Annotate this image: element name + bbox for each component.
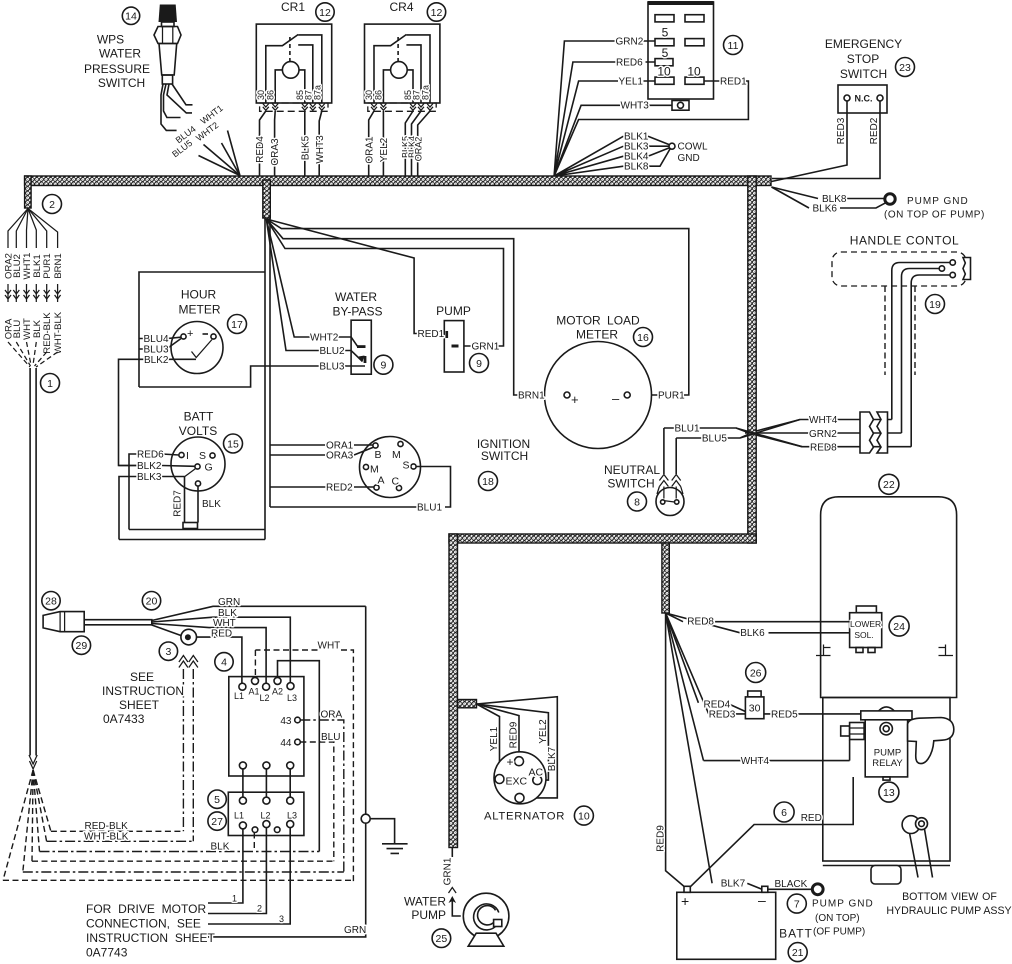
svg-text:BLK3: BLK3 bbox=[137, 472, 162, 483]
svg-text:BLU3: BLU3 bbox=[319, 362, 344, 373]
svg-text:BOTTOM VIEW OF: BOTTOM VIEW OF bbox=[902, 891, 997, 903]
svg-text:13: 13 bbox=[883, 787, 895, 799]
svg-text:N.C.: N.C. bbox=[855, 94, 873, 104]
svg-text:AC: AC bbox=[529, 767, 544, 779]
svg-text:28: 28 bbox=[45, 596, 57, 608]
svg-text:(OF PUMP): (OF PUMP) bbox=[813, 926, 865, 937]
svg-text:15: 15 bbox=[227, 438, 239, 450]
svg-text:HANDLE CONTOL: HANDLE CONTOL bbox=[850, 234, 960, 248]
svg-text:4: 4 bbox=[221, 657, 227, 669]
svg-text:A: A bbox=[378, 475, 385, 487]
svg-text:14: 14 bbox=[125, 11, 137, 23]
svg-text:10: 10 bbox=[657, 65, 671, 79]
svg-text:PUMP: PUMP bbox=[411, 908, 446, 922]
svg-text:BLK: BLK bbox=[32, 319, 43, 338]
svg-text:22: 22 bbox=[883, 479, 895, 491]
svg-text:ALTERNATOR: ALTERNATOR bbox=[484, 811, 565, 823]
svg-text:WHT4: WHT4 bbox=[741, 756, 770, 767]
svg-text:S: S bbox=[199, 450, 206, 462]
svg-text:CR4: CR4 bbox=[389, 0, 413, 14]
svg-text:27: 27 bbox=[211, 816, 223, 828]
svg-text:87a: 87a bbox=[312, 85, 322, 100]
svg-text:EMERGENCY: EMERGENCY bbox=[825, 37, 902, 51]
svg-text:11: 11 bbox=[728, 40, 739, 52]
svg-text:21: 21 bbox=[792, 947, 804, 959]
svg-text:WHT: WHT bbox=[213, 618, 236, 629]
svg-text:WATER: WATER bbox=[335, 290, 377, 304]
svg-text:WATER: WATER bbox=[99, 47, 141, 61]
svg-text:(ON TOP): (ON TOP) bbox=[815, 913, 860, 924]
svg-text:MOTOR LOAD: MOTOR LOAD bbox=[556, 314, 640, 328]
svg-text:1: 1 bbox=[47, 378, 53, 390]
svg-text:RED2: RED2 bbox=[326, 483, 353, 494]
svg-text:CR1: CR1 bbox=[281, 0, 305, 14]
svg-text:(ON TOP OF PUMP): (ON TOP OF PUMP) bbox=[884, 210, 985, 221]
svg-text:GRN2: GRN2 bbox=[616, 37, 644, 48]
svg-text:WHT4: WHT4 bbox=[809, 415, 838, 426]
svg-text:LOWER: LOWER bbox=[850, 619, 881, 629]
svg-text:5: 5 bbox=[214, 794, 220, 806]
svg-text:16: 16 bbox=[637, 332, 649, 344]
svg-text:12: 12 bbox=[319, 7, 331, 19]
svg-text:METER: METER bbox=[576, 328, 618, 342]
svg-text:COWL: COWL bbox=[678, 142, 708, 153]
svg-text:VOLTS: VOLTS bbox=[179, 424, 217, 438]
svg-text:WHT: WHT bbox=[318, 641, 341, 652]
svg-text:C: C bbox=[392, 476, 400, 488]
svg-text:RED4: RED4 bbox=[255, 136, 266, 163]
svg-text:BATT: BATT bbox=[184, 410, 214, 424]
svg-text:SEE: SEE bbox=[130, 670, 154, 684]
svg-text:BLK6: BLK6 bbox=[813, 204, 838, 215]
svg-text:RED8: RED8 bbox=[810, 442, 837, 453]
svg-text:BY-PASS: BY-PASS bbox=[332, 305, 382, 319]
svg-text:WATER: WATER bbox=[404, 895, 446, 909]
svg-text:9: 9 bbox=[476, 358, 482, 370]
svg-text:RED-BLK: RED-BLK bbox=[85, 821, 129, 832]
svg-text:YEL1: YEL1 bbox=[489, 726, 500, 751]
svg-text:RED2: RED2 bbox=[869, 117, 880, 144]
svg-text:L3: L3 bbox=[287, 811, 297, 821]
svg-text:BLK1: BLK1 bbox=[32, 254, 43, 277]
svg-text:0A7743: 0A7743 bbox=[86, 946, 128, 960]
svg-text:29: 29 bbox=[76, 640, 88, 652]
svg-text:30: 30 bbox=[749, 703, 761, 715]
svg-text:YEL1: YEL1 bbox=[619, 77, 644, 88]
svg-text:+: + bbox=[571, 392, 579, 407]
svg-text:ORA3: ORA3 bbox=[326, 451, 354, 462]
svg-text:BLK8: BLK8 bbox=[624, 162, 649, 173]
svg-text:10: 10 bbox=[687, 65, 701, 79]
svg-text:SWITCH: SWITCH bbox=[481, 449, 528, 463]
svg-text:L3: L3 bbox=[287, 693, 297, 703]
svg-text:A2: A2 bbox=[272, 687, 283, 697]
svg-text:44: 44 bbox=[280, 738, 292, 749]
svg-text:5: 5 bbox=[662, 26, 669, 40]
svg-text:17: 17 bbox=[231, 319, 243, 331]
svg-text:+: + bbox=[187, 328, 193, 340]
svg-text:YEL2: YEL2 bbox=[538, 719, 549, 744]
svg-text:BRN1: BRN1 bbox=[53, 253, 64, 278]
svg-text:8: 8 bbox=[634, 496, 640, 508]
svg-text:GRN: GRN bbox=[218, 597, 240, 608]
svg-text:+: + bbox=[681, 893, 689, 909]
svg-text:WHT2: WHT2 bbox=[310, 333, 339, 344]
svg-text:BLU5: BLU5 bbox=[702, 434, 727, 445]
svg-text:STOP: STOP bbox=[847, 52, 879, 66]
svg-text:B: B bbox=[375, 449, 382, 461]
svg-text:GRN2: GRN2 bbox=[809, 429, 837, 440]
svg-text:10: 10 bbox=[578, 810, 590, 822]
svg-text:RED6: RED6 bbox=[616, 58, 643, 69]
svg-text:2: 2 bbox=[49, 199, 55, 211]
svg-text:PRESSURE: PRESSURE bbox=[84, 62, 150, 76]
svg-text:PUMP GND: PUMP GND bbox=[907, 196, 969, 207]
svg-text:5: 5 bbox=[662, 46, 669, 60]
svg-text:INSTRUCTION SHEET: INSTRUCTION SHEET bbox=[86, 931, 216, 945]
svg-text:WPS: WPS bbox=[97, 33, 124, 47]
svg-text:L2: L2 bbox=[260, 693, 270, 703]
svg-text:0A7433: 0A7433 bbox=[103, 712, 145, 726]
svg-text:26: 26 bbox=[750, 667, 762, 679]
svg-text:RED8: RED8 bbox=[687, 617, 714, 628]
svg-text:20: 20 bbox=[146, 596, 158, 608]
svg-text:3: 3 bbox=[165, 646, 171, 658]
svg-text:BLU: BLU bbox=[321, 732, 340, 743]
svg-text:BRN1: BRN1 bbox=[518, 391, 545, 402]
svg-text:I: I bbox=[186, 450, 189, 462]
svg-text:CONNECTION, SEE: CONNECTION, SEE bbox=[86, 917, 201, 931]
svg-text:–: – bbox=[758, 892, 766, 908]
svg-text:METER: METER bbox=[179, 302, 221, 316]
svg-text:BATT: BATT bbox=[779, 927, 813, 941]
svg-text:FOR DRIVE MOTOR: FOR DRIVE MOTOR bbox=[86, 902, 206, 916]
svg-text:RED3: RED3 bbox=[836, 117, 847, 144]
svg-text:A1: A1 bbox=[249, 687, 260, 697]
svg-text:YEL2: YEL2 bbox=[379, 137, 390, 162]
svg-text:RELAY: RELAY bbox=[872, 758, 903, 769]
svg-text:30: 30 bbox=[256, 90, 266, 100]
svg-text:SWITCH: SWITCH bbox=[98, 76, 145, 90]
svg-text:BLU4: BLU4 bbox=[144, 334, 169, 345]
svg-text:WHT3: WHT3 bbox=[315, 135, 326, 164]
svg-text:2: 2 bbox=[257, 904, 262, 914]
svg-text:BLU3: BLU3 bbox=[144, 345, 169, 356]
svg-text:BLU1: BLU1 bbox=[675, 424, 700, 435]
svg-text:GRN1: GRN1 bbox=[472, 342, 500, 353]
svg-text:HOUR: HOUR bbox=[181, 287, 217, 301]
svg-text:BLK7: BLK7 bbox=[547, 746, 558, 771]
svg-text:BLK: BLK bbox=[211, 842, 230, 853]
svg-text:L1: L1 bbox=[234, 691, 244, 701]
svg-text:GRN1: GRN1 bbox=[443, 857, 454, 885]
svg-text:ORA2: ORA2 bbox=[413, 137, 423, 162]
svg-text:12: 12 bbox=[431, 7, 443, 19]
svg-text:RED9: RED9 bbox=[509, 721, 520, 748]
svg-text:RED-BLK: RED-BLK bbox=[42, 312, 53, 354]
svg-text:RED: RED bbox=[801, 813, 822, 824]
svg-text:BLK6: BLK6 bbox=[740, 628, 765, 639]
svg-text:PUMP: PUMP bbox=[436, 304, 471, 318]
svg-text:M: M bbox=[392, 449, 401, 461]
svg-text:BLU1: BLU1 bbox=[417, 503, 442, 514]
svg-text:WHT-BLK: WHT-BLK bbox=[84, 832, 129, 843]
svg-text:BLK: BLK bbox=[202, 499, 221, 510]
svg-text:86: 86 bbox=[266, 90, 276, 100]
svg-text:BLK2: BLK2 bbox=[137, 461, 162, 472]
svg-text:19: 19 bbox=[929, 299, 941, 311]
svg-text:G: G bbox=[205, 462, 213, 474]
svg-text:WHT-BLK: WHT-BLK bbox=[53, 311, 64, 354]
svg-text:PUMP GND: PUMP GND bbox=[812, 899, 874, 910]
svg-text:L1: L1 bbox=[234, 811, 244, 821]
svg-text:SHEET: SHEET bbox=[119, 698, 160, 712]
svg-text:ORA1: ORA1 bbox=[364, 136, 375, 164]
svg-text:43: 43 bbox=[280, 716, 292, 727]
svg-text:NEUTRAL: NEUTRAL bbox=[604, 463, 660, 477]
svg-text:–: – bbox=[612, 391, 620, 406]
svg-text:9: 9 bbox=[380, 360, 386, 372]
svg-text:7: 7 bbox=[794, 898, 800, 910]
svg-text:RED3: RED3 bbox=[709, 709, 736, 720]
svg-text:S: S bbox=[403, 460, 410, 472]
svg-text:ORA: ORA bbox=[321, 710, 343, 721]
svg-text:RED: RED bbox=[211, 629, 232, 640]
svg-text:3: 3 bbox=[279, 914, 284, 924]
svg-text:PUR1: PUR1 bbox=[658, 391, 685, 402]
svg-text:18: 18 bbox=[482, 476, 494, 488]
svg-text:BLACK: BLACK bbox=[775, 879, 808, 890]
svg-text:SOL.: SOL. bbox=[854, 630, 873, 640]
svg-text:RED7: RED7 bbox=[173, 490, 184, 517]
svg-text:PUMP: PUMP bbox=[874, 748, 901, 759]
svg-text:EXC: EXC bbox=[506, 775, 528, 787]
svg-text:BLK2: BLK2 bbox=[144, 355, 169, 366]
svg-text:BLU2: BLU2 bbox=[320, 346, 345, 357]
svg-text:HYDRAULIC PUMP ASSY: HYDRAULIC PUMP ASSY bbox=[886, 905, 1011, 917]
svg-text:SWITCH: SWITCH bbox=[840, 67, 887, 81]
svg-text:L2: L2 bbox=[261, 811, 271, 821]
svg-text:6: 6 bbox=[781, 807, 787, 819]
svg-text:23: 23 bbox=[899, 62, 911, 74]
svg-text:+: + bbox=[507, 755, 514, 769]
svg-text:24: 24 bbox=[893, 621, 905, 633]
svg-text:PUR1: PUR1 bbox=[42, 253, 53, 278]
svg-text:RED6: RED6 bbox=[137, 450, 164, 461]
svg-text:BLK5: BLK5 bbox=[301, 135, 312, 160]
svg-text:WHT3: WHT3 bbox=[621, 101, 650, 112]
svg-text:GND: GND bbox=[678, 153, 700, 164]
svg-text:BLK7: BLK7 bbox=[721, 879, 746, 890]
svg-text:RED5: RED5 bbox=[771, 709, 798, 720]
svg-text:ORA3: ORA3 bbox=[270, 138, 281, 166]
svg-text:25: 25 bbox=[436, 933, 448, 945]
svg-text:1: 1 bbox=[232, 894, 237, 904]
svg-text:GRN: GRN bbox=[344, 925, 366, 936]
svg-text:SWITCH: SWITCH bbox=[607, 477, 654, 491]
svg-text:INSTRUCTION: INSTRUCTION bbox=[102, 684, 184, 698]
svg-text:RED9: RED9 bbox=[656, 825, 667, 852]
svg-text:RED1: RED1 bbox=[418, 329, 445, 340]
svg-text:RED1: RED1 bbox=[720, 77, 747, 88]
